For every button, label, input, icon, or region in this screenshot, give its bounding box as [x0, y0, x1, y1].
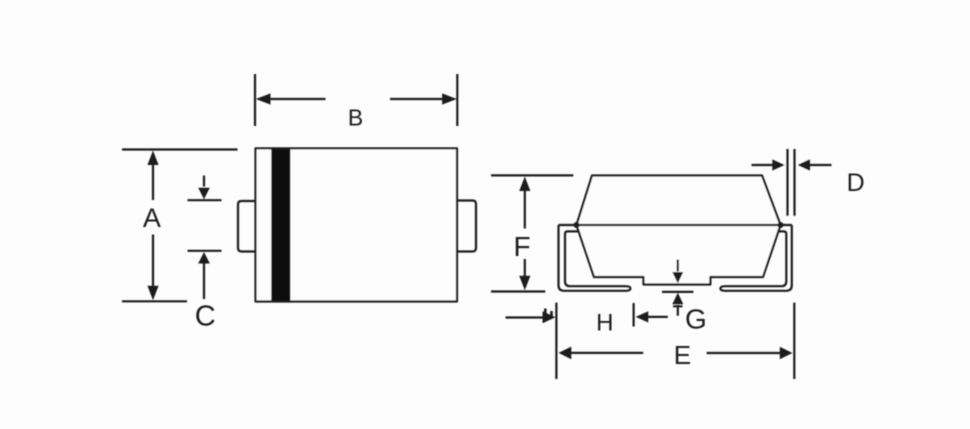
dim B extension line left: [254, 74, 256, 126]
seating plane reference line: [662, 291, 693, 293]
dim E arrow right: [707, 352, 781, 354]
dim G arrow up: [673, 305, 682, 316]
junction dot left: [574, 222, 580, 228]
dim A arrow down: [152, 235, 154, 287]
right terminal tab: [457, 201, 476, 252]
dim D arrow right: [752, 164, 774, 166]
svg-text:E: E: [674, 340, 691, 370]
dim A extension line bottom: [122, 300, 187, 302]
svg-text:B: B: [348, 104, 363, 130]
dim G arrow down: [677, 260, 679, 272]
dim E extension line left: [555, 303, 557, 379]
dim C arrow down: [203, 176, 205, 187]
svg-text:C: C: [195, 301, 216, 333]
dim F arrow down: [524, 259, 526, 276]
svg-text:D: D: [847, 169, 865, 197]
dim E arrow left: [571, 352, 644, 354]
dim C lower boundary line: [188, 250, 222, 252]
dim D arrow left: [810, 164, 832, 166]
dim B arrow left: [270, 98, 326, 100]
dim E extension line right: [793, 303, 795, 379]
junction dot right: [778, 222, 784, 228]
lead shoulder line: [559, 224, 792, 226]
dim H arrow left: [648, 316, 668, 318]
svg-text:H: H: [596, 309, 613, 336]
dim F extension line bottom: [491, 290, 545, 292]
right lead (side view): [720, 225, 791, 291]
package body (side view): [577, 176, 781, 285]
left lead (side view): [559, 225, 631, 291]
dim B extension line right: [456, 74, 458, 126]
dim H arrow right: [506, 316, 544, 318]
dim F extension line top: [491, 174, 573, 176]
dim B arrow right: [390, 98, 443, 100]
dim D extension line inner: [786, 149, 788, 216]
dim F arrow up: [524, 191, 526, 229]
left terminal tab: [238, 201, 256, 252]
package body (top view): [256, 148, 458, 301]
dim A arrow up: [152, 165, 154, 201]
cathode band: [271, 149, 290, 300]
dim C upper boundary line: [188, 199, 222, 201]
svg-text:G: G: [685, 303, 707, 334]
dim D extension line outer: [793, 149, 795, 216]
svg-text:F: F: [513, 231, 530, 262]
dim C arrow up: [203, 263, 205, 299]
dim H boundary tick: [632, 303, 634, 327]
svg-text:A: A: [143, 203, 161, 233]
dim A extension line top: [122, 148, 238, 150]
